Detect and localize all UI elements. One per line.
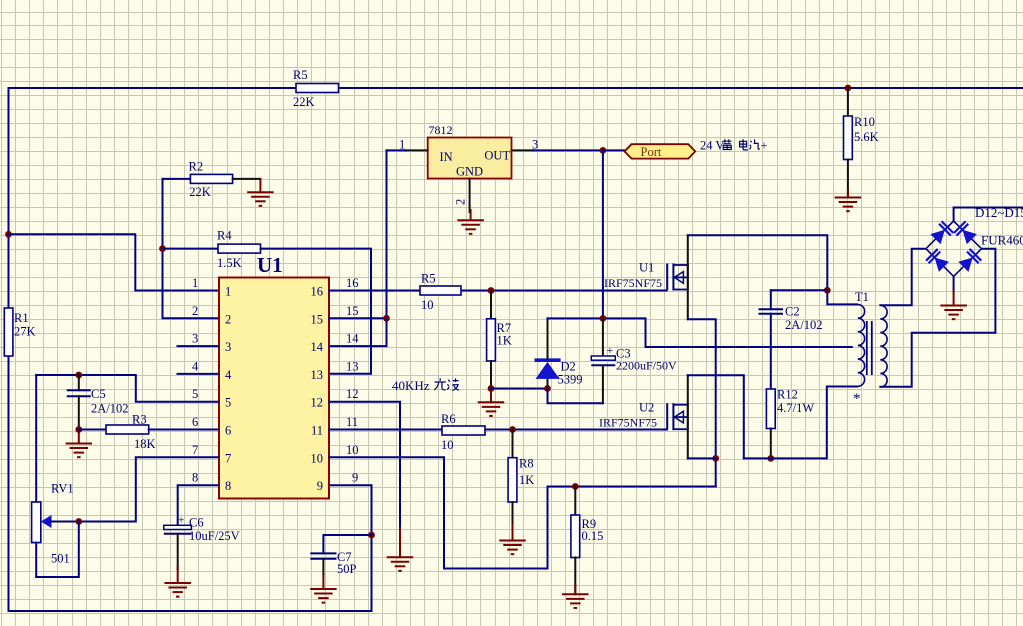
svg-text:14: 14 [311, 340, 324, 354]
wire node to port symbol [603, 149, 625, 151]
ground below C7 [310, 574, 337, 603]
svg-text:22K: 22K [189, 185, 211, 199]
wire R2-left vertical down to U1 pin 2 [163, 179, 220, 318]
wire U1 pin 12 to ground [329, 402, 400, 539]
node junction port (602.9,150.4) [600, 147, 607, 154]
wire T1 secondary top to bridge left [880, 249, 926, 306]
svg-text:40KHz: 40KHz [392, 378, 430, 393]
ground below R7 [478, 389, 505, 416]
svg-text:1: 1 [225, 285, 231, 299]
port Port [625, 144, 696, 159]
wire to U1 pin 1 [9, 234, 220, 290]
wire U1 pin 5 to C5 node [36, 375, 219, 402]
node junction top-left (8.5,233) [5, 231, 12, 238]
wire R4 right to U1 pin 13 [261, 249, 372, 374]
svg-text:U2: U2 [639, 401, 654, 415]
ground below R10 [835, 190, 862, 211]
node junction C7 tap (371.5,535) [368, 532, 375, 539]
wire U1 pin 3 stub [178, 345, 220, 347]
wire bottom rail junction to pin 9 [329, 484, 372, 486]
svg-text:IN: IN [440, 150, 453, 164]
label 24V battery+ (CJK approximated) [700, 139, 768, 153]
svg-text:15: 15 [346, 304, 359, 318]
resistor R10 (5.6K) [844, 88, 879, 197]
svg-text:4.7/1W: 4.7/1W [777, 401, 814, 415]
node junction R10 top (848,88) [845, 85, 852, 92]
svg-text:10: 10 [346, 443, 359, 457]
resistor R6 (10) [441, 412, 485, 452]
node junction R4 tap (162.5,248.6) [159, 245, 166, 252]
resistor R9 (0.15) [571, 487, 603, 595]
svg-text:11: 11 [311, 424, 323, 438]
capacitor C7 (50P) [310, 535, 371, 576]
svg-text:1K: 1K [519, 473, 534, 487]
node junction R7 bottom (491,388.5) [488, 385, 495, 392]
svg-text:12: 12 [346, 387, 359, 401]
svg-text:6: 6 [225, 424, 231, 438]
svg-text:R12: R12 [777, 388, 798, 402]
svg-text:3: 3 [225, 340, 231, 354]
diode D2 (5399) [535, 318, 583, 388]
svg-text:Port: Port [641, 145, 662, 159]
svg-text:8: 8 [192, 471, 198, 485]
svg-text:C2: C2 [785, 305, 800, 319]
node junction R7 top (491,290.5) [488, 287, 495, 294]
svg-text:10: 10 [421, 298, 434, 312]
svg-text:9: 9 [352, 471, 358, 485]
svg-text:1: 1 [399, 138, 405, 152]
wire U1 pin 15 / 7812 pin1 feed [387, 149, 407, 151]
svg-text:U1: U1 [257, 253, 283, 277]
wire U1 pin 11 to gate of Q-U2 with R6 inline [329, 429, 442, 431]
capacitor C6 (10uF/25V electrolytic) [164, 513, 240, 570]
svg-text:3: 3 [192, 332, 198, 346]
svg-text:10: 10 [441, 438, 454, 452]
node junction R8 top (512.5,429.5) [509, 426, 516, 433]
svg-text:C6: C6 [189, 516, 204, 530]
node junction C2 tap (827.3,289.3) [824, 287, 831, 294]
svg-text:10: 10 [311, 451, 324, 465]
svg-text:6: 6 [192, 415, 198, 429]
svg-text:1.5K: 1.5K [217, 256, 242, 270]
ground below R9 [562, 585, 589, 608]
wire U2 drain feed [687, 375, 689, 404]
wire sense rail to sources [548, 486, 716, 488]
svg-text:11: 11 [346, 415, 358, 429]
wire U1 pin 16 to gate of Q-U1 with R5(10) inline [329, 290, 420, 292]
svg-text:R10: R10 [854, 115, 875, 129]
svg-text:8: 8 [225, 479, 231, 493]
ground below C5/R3 node [66, 430, 93, 458]
svg-text:15: 15 [311, 312, 324, 326]
svg-text:13: 13 [346, 359, 359, 373]
svg-text:2A/102: 2A/102 [91, 402, 129, 416]
svg-text:R6: R6 [441, 412, 456, 426]
svg-text:16: 16 [346, 276, 359, 290]
label 40KHz square wave (CJK approximated) [392, 378, 459, 393]
wire bridge + output [954, 208, 1023, 222]
node junction source tie (715.7,458.4) [712, 455, 719, 462]
wire U1 pin 10 sense path [329, 457, 548, 568]
capacitor C5 (2A/102) [67, 375, 129, 430]
svg-text:R3: R3 [132, 413, 147, 427]
svg-text:2A/102: 2A/102 [785, 318, 823, 332]
svg-text:R8: R8 [519, 457, 534, 471]
node junction C3 top (602.9,318.4) [600, 315, 607, 322]
wire U1 source down to sense rail [687, 290, 689, 319]
svg-text:R2: R2 [189, 160, 204, 174]
svg-text:IRF75NF75: IRF75NF75 [604, 276, 662, 290]
resistor R7 (1K) [487, 291, 512, 389]
svg-text:+: + [761, 139, 768, 153]
svg-text:501: 501 [51, 552, 70, 566]
svg-text:*: * [853, 391, 861, 407]
wire port node down to +12V rail [602, 150, 604, 318]
node junction R12 bottom (770.8,458.4) [767, 455, 774, 462]
svg-text:+: + [607, 343, 614, 357]
svg-text:1: 1 [192, 276, 198, 290]
node junction D2 anode (547.5,388.5) [544, 385, 551, 392]
node junction RV1 wiper (78.8,521.5) [75, 518, 82, 525]
svg-text:5399: 5399 [558, 373, 583, 387]
diode bridge D12~D15 (FUR460) [926, 221, 982, 276]
svg-text:0.15: 0.15 [582, 529, 604, 543]
svg-text:7: 7 [225, 451, 231, 465]
ground below bridge [940, 276, 967, 319]
svg-text:R5: R5 [293, 68, 308, 82]
svg-text:24 V: 24 V [700, 139, 724, 153]
svg-text:C5: C5 [91, 387, 106, 401]
svg-text:7812: 7812 [429, 123, 453, 137]
svg-text:2200uF/50V: 2200uF/50V [616, 359, 677, 373]
svg-text:U1: U1 [639, 261, 654, 275]
wire U1 drain to T1 primary top [687, 235, 689, 264]
svg-text:IRF75NF75: IRF75NF75 [599, 416, 657, 430]
resistor R5 (10) [420, 272, 461, 313]
wire 7812 pin3 to port node [533, 149, 603, 151]
wire drain rail to T1 primary bottom [744, 387, 857, 459]
svg-text:2: 2 [192, 304, 198, 318]
potentiometer RV1 (501) [32, 375, 79, 577]
wire U1 pin 4 stub [178, 373, 220, 375]
svg-text:10uF/25V: 10uF/25V [189, 529, 240, 543]
svg-text:D12~D15: D12~D15 [975, 205, 1023, 220]
capacitor C3 (2200uF/50V electrolytic) [548, 318, 678, 403]
wire T1 secondary bottom to bridge right [880, 249, 995, 387]
svg-text:T1: T1 [855, 290, 869, 304]
ground below C6 [164, 566, 191, 597]
wire U1 pin 8 to C6 [178, 485, 219, 525]
svg-text:R4: R4 [217, 229, 232, 243]
wire U1 pin 7 to RV1 wiper [79, 457, 219, 521]
transistor U1 (IRF75NF75 upper MOSFET) [604, 261, 688, 291]
svg-text:27K: 27K [14, 325, 36, 339]
svg-text:2: 2 [225, 312, 231, 326]
transistor U2 (IRF75NF75 lower MOSFET) [599, 401, 688, 431]
svg-text:+: + [178, 513, 185, 527]
svg-text:9: 9 [317, 479, 323, 493]
wire U2 source to sense rail [687, 430, 689, 458]
svg-text:50P: 50P [337, 562, 357, 576]
svg-text:GND: GND [456, 164, 483, 178]
wire pin15 junction down to U1 pin 14 [329, 318, 387, 346]
svg-text:5: 5 [225, 396, 231, 410]
ground below R8 [499, 525, 526, 554]
resistor R12 (4.7/1W) [766, 388, 814, 459]
svg-text:14: 14 [346, 332, 359, 346]
svg-text:22K: 22K [293, 95, 315, 109]
svg-text:18K: 18K [134, 437, 156, 451]
node junction R9 top (575.3,486.5) [572, 483, 579, 490]
svg-text:R5: R5 [421, 272, 436, 286]
ground below 7812 [457, 210, 484, 234]
svg-text:16: 16 [311, 285, 324, 299]
svg-text:R1: R1 [14, 311, 29, 325]
svg-text:7: 7 [192, 443, 198, 457]
node junction C5 top (78.8,375) [75, 372, 82, 379]
svg-text:12: 12 [311, 396, 324, 410]
ground right of R2 [247, 179, 274, 206]
resistor R3 (18K) [79, 413, 219, 452]
svg-text:OUT: OUT [484, 149, 510, 163]
pin number labels outside U1 [192, 276, 359, 485]
node junction R3 left (78.8,429.5) [75, 426, 82, 433]
regulator 7812 [399, 123, 538, 212]
wire R7 bottom to D2 anode [491, 388, 548, 390]
resistor R1 (27K, inline left loop) [4, 308, 35, 356]
resistor R8 (1K) [508, 430, 534, 528]
svg-text:RV1: RV1 [51, 482, 74, 496]
svg-text:2: 2 [454, 199, 468, 205]
transformer T1 [853, 290, 887, 407]
svg-text:4: 4 [225, 368, 232, 382]
resistor R2 (22K) [163, 160, 261, 200]
svg-text:D2: D2 [561, 360, 576, 374]
svg-text:13: 13 [311, 368, 324, 382]
node junction pin15 (386.5,318.3) [383, 315, 390, 322]
svg-text:5: 5 [192, 387, 198, 401]
svg-text:4: 4 [192, 359, 199, 373]
resistor R4 (1.5K) [163, 229, 261, 271]
wire RV1 bottom loop [36, 522, 79, 578]
svg-text:FUR460*: FUR460* [981, 233, 1023, 248]
svg-text:1K: 1K [497, 334, 512, 348]
op-amp U1 (16-pin IC body) [219, 253, 329, 499]
svg-text:5.6K: 5.6K [854, 130, 879, 144]
capacitor C2 (2A/102) [759, 290, 828, 389]
resistor R5 (22K, inline top rail) [293, 68, 339, 109]
wire +12V rail to transformer centre tap [548, 318, 852, 347]
